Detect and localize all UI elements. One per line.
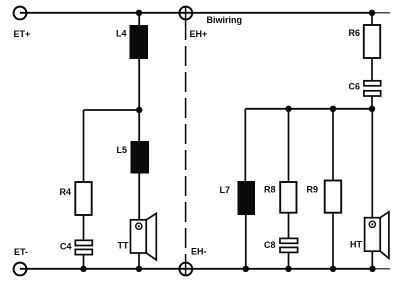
junction node top L4 (136, 10, 142, 16)
wire R9 to bottom bus (332, 213, 334, 269)
svg-text:HT: HT (350, 240, 362, 250)
speaker HT (365, 212, 389, 259)
wire bottom stub right of HT node (373, 268, 390, 270)
resistor R9 (325, 181, 342, 213)
wire mid node to HT (371, 109, 373, 218)
wire L4 to L5 (138, 59, 140, 141)
wire L7 to bottom bus (245, 215, 247, 269)
inductor L4 (130, 25, 149, 59)
wire R4 branch vertical (83, 110, 85, 182)
svg-text:C8: C8 (264, 240, 276, 250)
resistor R6 (364, 25, 380, 58)
wire C8 to bottom bus (288, 252, 290, 269)
junction node top R6 (369, 10, 375, 16)
junction node L7 bottom (243, 266, 249, 272)
terminal EH- (179, 263, 192, 276)
terminal EH+ (179, 7, 192, 20)
svg-text:L7: L7 (220, 185, 231, 195)
terminal ET+ (14, 7, 27, 20)
junction node C8 bottom (285, 266, 291, 272)
wire node to R4 branch horizontal (84, 109, 140, 111)
resistor R4 (75, 182, 91, 215)
wire R6 to C6 (371, 58, 373, 81)
svg-text:C4: C4 (60, 242, 72, 252)
wire top node to R6 (371, 13, 373, 25)
capacitor C6 (364, 81, 381, 96)
junction node L4-L5-R4 (136, 107, 142, 113)
wire bottom bus ET- to HT node (20, 268, 373, 270)
wire top stub right of R6 node (372, 12, 390, 14)
junction node R9 bottom (330, 266, 336, 272)
wire R8 to C8 (288, 213, 290, 239)
svg-text:C6: C6 (349, 82, 361, 92)
junction node C4 bottom (80, 266, 86, 272)
wire TT to bottom bus (138, 253, 140, 269)
svg-text:R6: R6 (349, 28, 361, 38)
resistor R8 (280, 182, 296, 213)
speaker TT (131, 213, 157, 260)
wire C4 to bottom bus (83, 255, 85, 269)
svg-text:EH+: EH+ (190, 29, 208, 39)
inductor L5 (131, 141, 150, 174)
svg-text:R8: R8 (264, 185, 276, 195)
wire dashed biwiring separator (185, 20, 187, 263)
wire HT to bottom bus (371, 251, 373, 269)
svg-text:R4: R4 (60, 187, 72, 197)
inductor L7 (238, 181, 256, 215)
terminal ET- (14, 263, 27, 276)
wire mid bus tweeter section (245, 108, 372, 110)
junction node bus R8 (285, 106, 291, 112)
wire bus to R9 (332, 109, 334, 181)
wire top node to L4 (138, 13, 140, 25)
svg-text:L5: L5 (117, 145, 128, 155)
wire C6 to mid node (371, 96, 373, 109)
svg-text:Biwiring: Biwiring (207, 15, 243, 25)
svg-text:EH-: EH- (191, 247, 207, 257)
capacitor C8 (280, 238, 298, 252)
wire R4 to C4 (83, 215, 85, 240)
svg-text:L4: L4 (116, 29, 127, 39)
junction node C6 bottom (369, 106, 375, 112)
wire L5 to TT (138, 174, 140, 220)
svg-text:R9: R9 (307, 185, 319, 195)
wire vertical through EH+ terminal (185, 6, 187, 20)
wire bus corner to L7 (244, 109, 246, 181)
wire bus to R8 (288, 109, 290, 182)
junction node HT bottom (369, 266, 375, 272)
svg-text:ET-: ET- (14, 247, 28, 257)
junction node TT bottom (136, 266, 142, 272)
capacitor C4 (75, 240, 92, 254)
wire top bus ET+ to R6 node (20, 12, 372, 14)
svg-text:ET+: ET+ (14, 29, 31, 39)
wire vertical through EH- terminal (185, 262, 187, 276)
junction node bus R9 (330, 106, 336, 112)
svg-text:TT: TT (118, 241, 129, 251)
